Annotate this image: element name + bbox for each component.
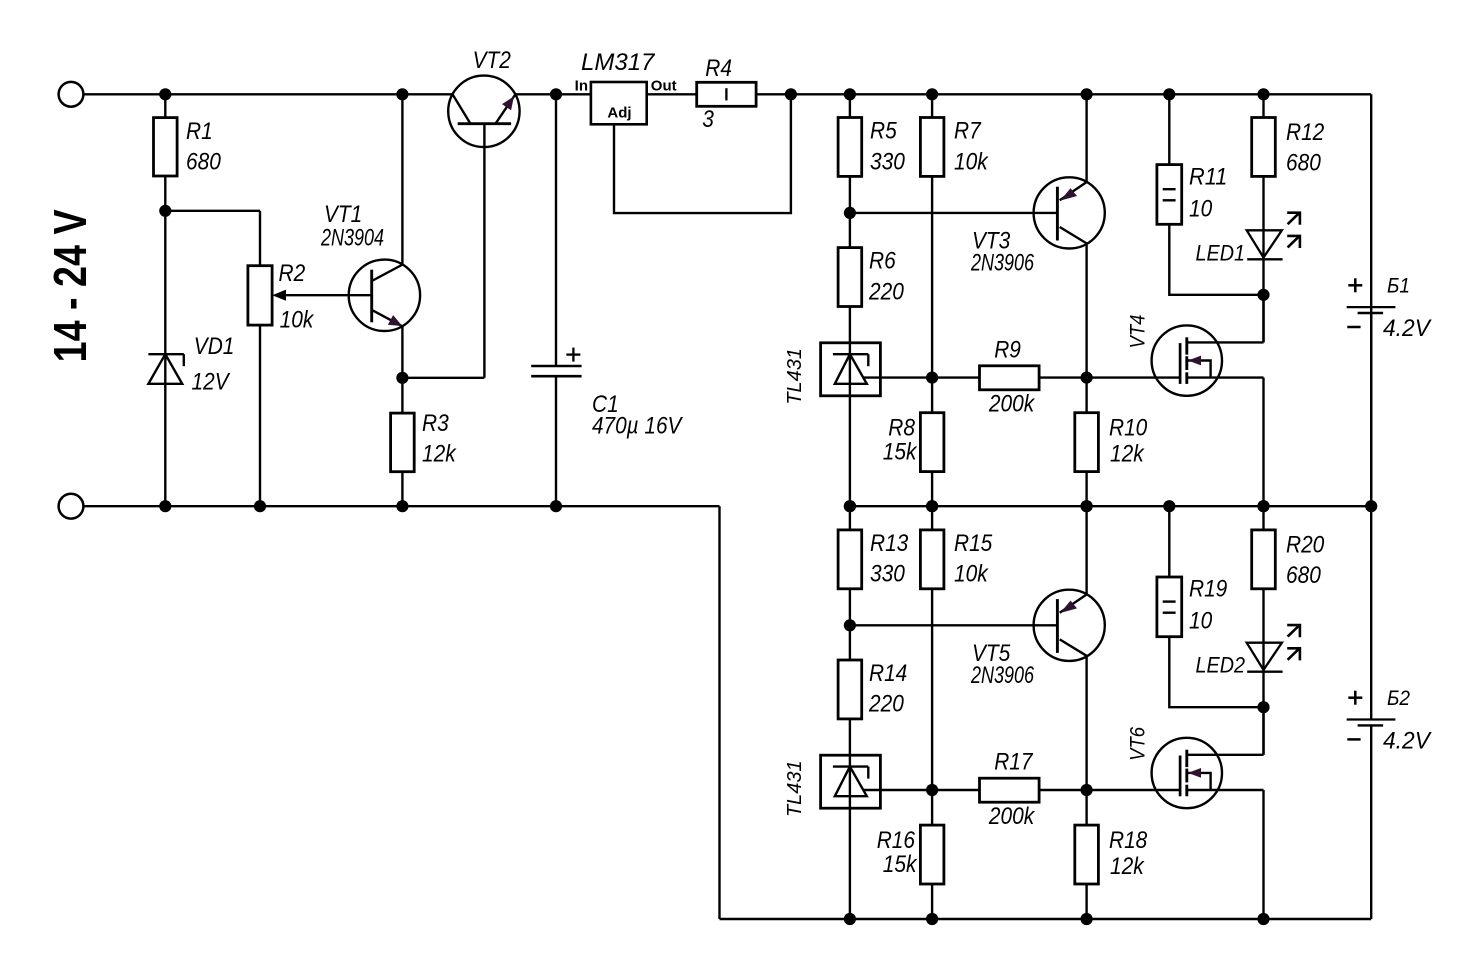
resistor R12 <box>1252 118 1276 177</box>
svg-text:R11: R11 <box>1189 163 1227 190</box>
wire R13 bottom lead <box>849 589 851 626</box>
LED LED2 <box>1247 643 1282 670</box>
zener diode VD1 <box>148 353 183 355</box>
wire R16 bottom lead <box>931 884 933 919</box>
wire R7 to ref node <box>931 176 933 377</box>
node: top rail / R1 <box>159 88 171 100</box>
svg-text:R4: R4 <box>705 55 732 82</box>
svg-text:Adj: Adj <box>607 104 631 121</box>
wire R12 top lead <box>1262 94 1264 117</box>
svg-text:10k: 10k <box>954 561 989 588</box>
wire R19 to LED cathode node <box>1169 637 1263 708</box>
svg-text:12k: 12k <box>1110 441 1145 468</box>
wire top rail: R4 to battery column <box>756 93 1371 95</box>
svg-text:TL431: TL431 <box>784 348 806 405</box>
wire bottom rail of input section <box>83 505 719 507</box>
wire R16 top lead <box>931 790 933 825</box>
svg-text:R12: R12 <box>1286 119 1324 146</box>
label &#1041;2 polarity + <box>1348 696 1362 699</box>
svg-text:LED2: LED2 <box>1196 653 1246 678</box>
wire junction to VT3 base <box>850 212 1058 214</box>
wire R20 to LED2 anode <box>1262 589 1264 643</box>
transistor VT2 <box>448 76 519 147</box>
capacitor C1 470u 16V <box>531 365 581 368</box>
wire VT1 emitter down <box>401 326 403 378</box>
svg-text:680: 680 <box>1286 150 1321 177</box>
svg-text:In: In <box>575 78 588 95</box>
svg-text:220: 220 <box>868 278 904 305</box>
wire drop to lower channel return <box>718 506 720 919</box>
node: bottom rail / VD1 <box>159 500 171 512</box>
shunt regulator TL431 <box>821 755 881 808</box>
resistor R5 <box>838 118 862 177</box>
svg-text:R16: R16 <box>877 827 916 854</box>
wire VT5 emitter to rail <box>1085 506 1087 594</box>
svg-text:R3: R3 <box>422 410 449 437</box>
svg-text:R5: R5 <box>870 118 897 145</box>
svg-text:R8: R8 <box>888 415 915 442</box>
node: top rail / VT1 collector <box>396 88 408 100</box>
svg-text:330: 330 <box>870 561 905 588</box>
wire TL431 through connection <box>849 343 851 396</box>
svg-text:4.2V: 4.2V <box>1383 727 1432 754</box>
wire VD1 cathode lead <box>164 211 166 384</box>
svg-text:R13: R13 <box>870 530 909 557</box>
wire node to R2 top <box>165 210 260 212</box>
LED2 emission arrows <box>1288 626 1299 637</box>
wire VT4 body contact <box>1187 361 1211 378</box>
R4 power rating mark <box>725 88 727 100</box>
svg-text:VT2: VT2 <box>473 47 511 74</box>
wire VD1 anode lead <box>164 384 166 506</box>
node: rail / VT4 source <box>1257 500 1269 512</box>
transistor VT3 2N3906 <box>1034 177 1105 248</box>
node: rail / R19 <box>1163 500 1175 512</box>
node: rail / R12 <box>1257 88 1269 100</box>
resistor R13 <box>838 530 862 589</box>
wire R3 bottom lead <box>401 472 403 507</box>
svg-text:2N3904: 2N3904 <box>320 225 384 252</box>
transistor VT5 2N3906 <box>1034 590 1105 661</box>
node: rail / R11 <box>1163 88 1175 100</box>
wire ref node to R17 <box>932 789 979 791</box>
svg-text:R6: R6 <box>869 248 896 275</box>
svg-text:200k: 200k <box>988 391 1036 418</box>
wire LED1 cathode down <box>1262 259 1264 342</box>
resistor R6 <box>838 248 862 307</box>
wire R3 top lead <box>401 378 403 413</box>
wire through LED2 triangle <box>1262 643 1264 672</box>
wire VT3 emitter to rail <box>1085 94 1087 182</box>
wire R11 to LED cathode node <box>1169 224 1263 294</box>
node: gate/collector/divider <box>1081 784 1093 796</box>
svg-text:R1: R1 <box>186 118 213 145</box>
node: gate/collector/divider <box>1081 372 1093 384</box>
svg-text:VD1: VD1 <box>194 333 235 360</box>
svg-text:200k: 200k <box>988 803 1036 830</box>
wire VT2 base stem <box>483 125 485 378</box>
node: rail / TL431 anode <box>844 500 856 512</box>
wire R10 top lead <box>1085 378 1087 413</box>
wire R20 top lead <box>1262 506 1264 530</box>
VT4 body arrow <box>1188 356 1201 366</box>
svg-text:R9: R9 <box>994 336 1021 363</box>
svg-text:LED1: LED1 <box>1196 240 1246 265</box>
wire R15 to ref node <box>931 589 933 790</box>
transistor VT1 2N3904 <box>349 260 420 331</box>
LED1 emission arrows <box>1288 214 1299 225</box>
svg-text:VT4: VT4 <box>1127 315 1150 349</box>
wire VT5 collector down <box>1085 656 1087 790</box>
svg-text:R19: R19 <box>1189 576 1227 603</box>
resistor R4 (current sense) <box>697 82 756 106</box>
wire R11 top lead <box>1168 94 1170 164</box>
wire R2 bottom lead <box>259 325 261 506</box>
node: rail / R7 <box>926 88 938 100</box>
wire R14 top lead <box>849 625 851 660</box>
wire VT6 drain lead <box>1187 754 1264 756</box>
wire Adj feedback to R4 output node <box>614 94 791 213</box>
wire top rail: VT2 emitter to LM317 In <box>515 93 591 95</box>
svg-text:10: 10 <box>1189 608 1213 635</box>
node: ref divider R7/R8 <box>926 372 938 384</box>
wire TL431 anode to rail <box>849 808 851 919</box>
wire R18 top lead <box>1085 790 1087 825</box>
resistor R3 <box>391 413 415 472</box>
wire battery &#1041;1 leads <box>1370 307 1372 506</box>
wire R19 top lead <box>1168 506 1170 577</box>
resistor R7 <box>920 118 944 177</box>
svg-text:LM317: LM317 <box>581 49 656 76</box>
wire top rail: LM317 Out to R4 <box>647 93 697 95</box>
wire bottom rail of lower channel <box>720 918 1372 920</box>
wire battery B1 positive lead <box>1370 94 1372 307</box>
wire R5 bottom lead <box>849 176 851 213</box>
svg-text:470µ 16V: 470µ 16V <box>592 412 683 439</box>
MOSFET VT6 <box>1152 738 1222 808</box>
node: bottom rail / C1 <box>550 500 562 512</box>
wire R1 top lead <box>164 94 166 117</box>
svg-text:R20: R20 <box>1286 531 1325 558</box>
svg-text:14 - 24 V: 14 - 24 V <box>44 209 96 362</box>
wire C1 bottom lead <box>555 376 557 506</box>
node: ref divider R15/R16 <box>926 784 938 796</box>
input terminal X2 (bottom) <box>59 494 84 519</box>
input terminal X1 (top) <box>59 82 84 107</box>
svg-text:3: 3 <box>702 106 714 133</box>
node: rail / R16 <box>926 913 938 925</box>
node: VT1 emitter / R3 / VT2 base <box>396 372 408 384</box>
MOSFET VT4 <box>1152 325 1222 395</box>
svg-text:10k: 10k <box>954 148 989 175</box>
resistor R9 <box>980 366 1040 390</box>
battery &#1041;2 4.2V <box>1347 718 1396 720</box>
resistor R16 <box>920 825 944 884</box>
label &#1041;1 polarity - <box>1347 326 1360 329</box>
resistor R14 <box>838 660 862 719</box>
svg-text:R15: R15 <box>954 530 993 557</box>
node: LED cathode / drain <box>1257 701 1269 713</box>
svg-text:R18: R18 <box>1109 827 1148 854</box>
svg-text:R2: R2 <box>279 260 306 287</box>
wire VT3 collector down <box>1085 243 1087 377</box>
node: rail / R10 <box>1081 500 1093 512</box>
wire TL431 anode to rail <box>849 396 851 506</box>
svg-text:680: 680 <box>186 149 221 176</box>
potentiometer R2 <box>248 266 272 325</box>
svg-text:Б2: Б2 <box>1387 687 1410 710</box>
resistor R17 <box>980 778 1040 802</box>
resistor R20 <box>1252 530 1276 589</box>
wire R2 wiper to VT1 base <box>284 294 372 296</box>
wire node to VT2 base stem <box>402 377 484 379</box>
node: rail / R8 <box>926 500 938 512</box>
svg-text:330: 330 <box>870 148 905 175</box>
LED LED1 <box>1247 230 1282 257</box>
svg-text:220: 220 <box>868 691 904 718</box>
wire LED2 cathode down <box>1262 672 1264 755</box>
wire R9 to gate node <box>1039 376 1087 378</box>
wire R1 bottom lead <box>164 176 166 211</box>
svg-text:12k: 12k <box>422 441 457 468</box>
svg-text:2N3906: 2N3906 <box>970 662 1034 689</box>
svg-text:10: 10 <box>1189 195 1213 222</box>
wire R17 to gate node <box>1039 789 1087 791</box>
label &#1041;1 polarity + <box>1348 284 1362 287</box>
wire through LED1 triangle <box>1262 230 1264 259</box>
svg-text:R7: R7 <box>954 118 982 145</box>
wire gate lead of VT4 <box>1087 376 1181 378</box>
VT6 body arrow <box>1188 768 1201 778</box>
node: rail / R15 <box>926 500 938 512</box>
svg-text:4.2V: 4.2V <box>1383 315 1432 342</box>
svg-text:12V: 12V <box>192 369 231 396</box>
svg-text:Out: Out <box>651 78 677 95</box>
battery &#1041;1 4.2V <box>1347 306 1396 308</box>
R2 wiper arrow <box>272 290 286 301</box>
node: top rail / C1 <box>550 88 562 100</box>
wire R8 top lead <box>931 378 933 413</box>
svg-text:15k: 15k <box>883 851 918 878</box>
C1 plus sign <box>566 353 580 355</box>
wire to TL431 cathode <box>849 719 851 755</box>
wire TL431 ref to divider <box>864 789 932 791</box>
node: R5/R6 junction <box>844 207 856 219</box>
wire battery B1 negative to mid rail <box>1370 313 1372 506</box>
wire battery &#1041;2 leads <box>1370 506 1372 719</box>
svg-text:15k: 15k <box>883 439 918 466</box>
wire junction to VT5 base <box>850 624 1058 626</box>
label &#1041;2 polarity - <box>1347 738 1360 741</box>
node: rail / VT6 source <box>1257 913 1269 925</box>
wire VT4 drain lead <box>1187 341 1264 343</box>
wire R2 top lead <box>259 211 261 266</box>
svg-text:R10: R10 <box>1109 415 1148 442</box>
wire R8 bottom lead <box>931 472 933 507</box>
svg-text:12k: 12k <box>1110 853 1145 880</box>
node: bottom rail / R3 <box>396 500 408 512</box>
node: top rail / R4 out / Adj feedback <box>785 88 797 100</box>
svg-text:TL431: TL431 <box>784 760 806 817</box>
resistor R15 <box>920 530 944 589</box>
wire C1 top lead <box>555 94 557 366</box>
wire mid rail between channels <box>850 505 1371 507</box>
wire R6 top lead <box>849 213 851 248</box>
node: rail / R18 <box>1081 913 1093 925</box>
wire TL431 ref to divider <box>864 376 932 378</box>
node: rail / VT5 emitter <box>1081 500 1093 512</box>
wire VT6 source lead <box>1187 789 1264 791</box>
node: rail / TL431 anode <box>844 913 856 925</box>
wire R7 top lead <box>931 94 933 117</box>
resistor R11 (with power marks) <box>1157 165 1182 225</box>
resistor R8 <box>920 413 944 472</box>
svg-text:VT6: VT6 <box>1127 727 1150 761</box>
wire gate lead of VT6 <box>1087 789 1181 791</box>
svg-text:680: 680 <box>1286 562 1321 589</box>
resistor R10 <box>1075 413 1099 472</box>
wire ref node to R9 <box>932 376 979 378</box>
svg-text:R17: R17 <box>994 749 1034 776</box>
node: R13/R14 junction <box>844 619 856 631</box>
svg-text:2N3906: 2N3906 <box>970 250 1034 277</box>
node: rail / VT3 emitter <box>1081 88 1093 100</box>
node: rail / R13 <box>844 500 856 512</box>
resistor R19 (with power marks) <box>1157 577 1182 637</box>
regulator U1 LM317 <box>591 82 647 124</box>
svg-text:10k: 10k <box>280 307 315 334</box>
wire TL431 through connection <box>849 755 851 808</box>
svg-text:R14: R14 <box>869 660 907 687</box>
wire R15 top lead <box>931 506 933 530</box>
resistor R18 <box>1075 825 1099 884</box>
svg-text:Б1: Б1 <box>1387 275 1410 298</box>
wire top rail: terminal to VT2 collector <box>83 93 452 95</box>
node: rail / R20 <box>1257 500 1269 512</box>
wire R5 top lead <box>849 94 851 117</box>
wire VT1 collector to top rail <box>401 94 403 264</box>
node: rail / R5 <box>844 88 856 100</box>
wire VT6 body contact <box>1187 773 1211 790</box>
wire R18 bottom lead <box>1085 884 1087 919</box>
wire R12 to LED1 anode <box>1262 176 1264 230</box>
node: bottom rail / R2 <box>254 500 266 512</box>
wire VT4 source lead <box>1187 376 1264 378</box>
node: mid rail / batteries <box>1365 500 1377 512</box>
node: LED cathode / drain <box>1257 289 1269 301</box>
node: R1 / VD1 / R2 tap <box>159 205 171 217</box>
wire R13 top lead <box>849 506 851 530</box>
wire R10 bottom lead <box>1085 472 1087 507</box>
shunt regulator TL431 <box>821 343 881 396</box>
wire to TL431 cathode <box>849 307 851 343</box>
resistor R1 <box>154 118 178 176</box>
